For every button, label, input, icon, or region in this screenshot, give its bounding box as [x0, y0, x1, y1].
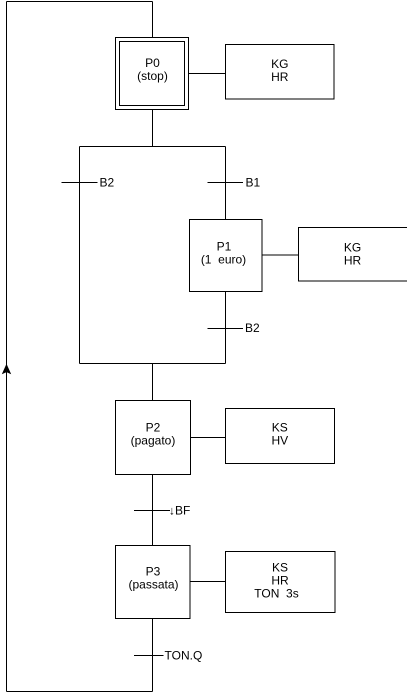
transition TON.Q: [134, 649, 202, 663]
divergence bar (OR branch top): [80, 146, 226, 148]
svg-text:HR: HR: [271, 574, 289, 588]
svg-text:HR: HR: [271, 70, 289, 84]
svg-text:HV: HV: [271, 434, 288, 448]
svg-text:(passata): (passata): [128, 578, 178, 592]
svg-text:B2: B2: [245, 321, 260, 335]
svg-text:P0: P0: [145, 56, 160, 70]
wire feedback top horizontal: [7, 1, 153, 3]
transition B2 (left branch): [62, 176, 115, 190]
svg-text:(1 euro): (1 euro): [201, 253, 246, 267]
wire P3 down to bottom feedback: [152, 619, 154, 692]
wire P3 to action box: [190, 581, 226, 583]
action box KS HV (for P2): [226, 409, 335, 464]
wire right branch vertical upper: [225, 147, 227, 220]
wire P0 to action box: [189, 73, 226, 75]
action box KG HR (for P0): [226, 45, 335, 100]
wire feedback left vertical: [6, 2, 8, 692]
wire P2 to action box: [191, 437, 226, 439]
svg-text:B2: B2: [100, 176, 115, 190]
wire P0 down to divergence: [152, 110, 154, 147]
step P3: [116, 546, 191, 619]
action box KG HR (for P1, clipped at right edge): [299, 228, 407, 282]
step P2: [116, 401, 191, 475]
svg-text:↓BF: ↓BF: [169, 504, 190, 518]
step P0 (initial step, double border): [116, 38, 189, 110]
arrowhead on feedback (points up): [2, 365, 10, 374]
svg-text:TON.Q: TON.Q: [165, 649, 203, 663]
svg-text:P3: P3: [146, 565, 161, 579]
svg-text:P1: P1: [217, 240, 232, 254]
wire P2 down to transition BF: [152, 475, 154, 546]
svg-text:HR: HR: [344, 254, 362, 268]
svg-text:P2: P2: [146, 421, 161, 435]
wire right branch vertical lower: [225, 292, 227, 364]
transition B2 (below P1): [208, 321, 261, 335]
svg-text:KS: KS: [272, 561, 288, 575]
step P1: [190, 220, 263, 292]
svg-text:KS: KS: [272, 421, 288, 435]
wire feedback bottom horizontal: [7, 691, 153, 693]
svg-text:KG: KG: [344, 241, 361, 255]
transition BF (falling edge): [134, 504, 190, 518]
convergence bar (OR branch bottom): [80, 363, 226, 365]
svg-text:(pagato): (pagato): [131, 434, 176, 448]
svg-text:KG: KG: [271, 57, 288, 71]
svg-text:TON 3s: TON 3s: [254, 587, 298, 601]
wire left branch vertical: [79, 147, 81, 364]
svg-text:(stop): (stop): [137, 69, 168, 83]
action box KS HR TON 3s (for P3): [226, 552, 336, 613]
wire entry into step P0: [152, 2, 154, 38]
transition B1 (right branch): [208, 176, 261, 190]
wire convergence to P2: [152, 364, 154, 401]
svg-text:B1: B1: [246, 176, 261, 190]
wire P1 to action box: [262, 254, 299, 256]
